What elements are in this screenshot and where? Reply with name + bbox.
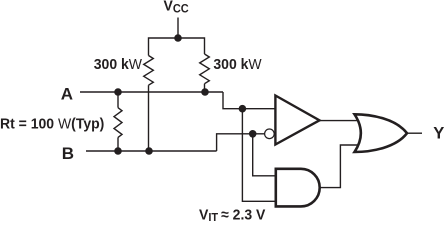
wire R1 bottom lead to B [148,85,150,151]
node Vcc rail junction [174,34,182,42]
wire B line [86,150,217,152]
wire A to comparator top input [223,92,275,109]
wire Rt bottom lead [117,137,119,151]
wire AND output up to OR gate [320,145,359,188]
svg-text:A: A [61,85,73,104]
svg-text:Y: Y [433,123,444,142]
svg-text:300 kW: 300 kW [94,57,142,74]
op-amp U1 comparator triangle [275,96,319,145]
OR gate U3 [355,114,408,152]
inversion bubble on U1 lower input [265,129,275,139]
node B / R1 junction [145,147,153,155]
node A / Rt junction [114,88,122,96]
wire comparator output to OR gate [320,120,359,122]
svg-text:B: B [62,144,74,163]
resistor R1 300k left [144,56,154,86]
svg-text:VCC: VCC [164,0,189,16]
node comparator top input branch junction [239,105,247,113]
node inverting input branch junction [249,130,257,138]
AND gate U2 [276,169,320,207]
svg-text:Rt = 100 W(Typ): Rt = 100 W(Typ) [0,116,104,133]
wire Vcc rail [149,38,205,56]
wire Vcc stub [177,18,179,39]
wire A line [80,91,223,93]
resistor R2 300k right [200,54,210,84]
wire Rt top lead [117,92,119,108]
wire A branch down to AND bottom input [242,109,275,202]
resistor Rt [114,108,122,138]
wire OR output to Y [408,132,422,134]
wire R2 bottom lead to A [204,84,206,92]
svg-text:300 kW: 300 kW [213,57,261,74]
node B / Rt junction [114,147,122,155]
wire B branch down to AND top input [253,134,276,176]
wire B to inverting input bubble [217,134,265,151]
node A / R2 junction [201,88,209,96]
